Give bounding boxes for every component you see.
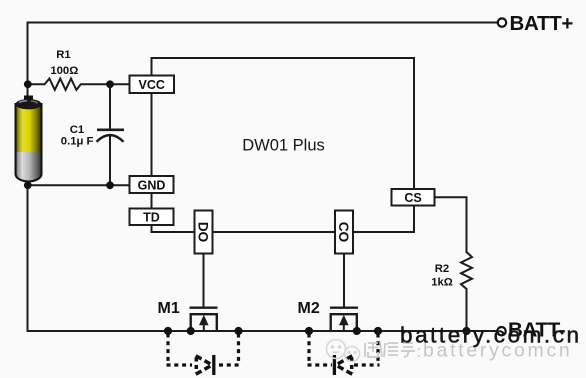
pin CS — [392, 189, 435, 206]
wire CS to R2 — [435, 197, 467, 253]
svg-text:1kΩ: 1kΩ — [431, 277, 453, 289]
wire OC gate to M2 — [343, 254, 345, 309]
pin GND — [130, 176, 174, 193]
node M1 dashed-left junction — [164, 327, 172, 335]
svg-text:DW01 Plus: DW01 Plus — [242, 137, 325, 155]
pin TD — [130, 209, 174, 226]
pin VCC — [130, 76, 175, 94]
transistor M1 — [190, 308, 218, 331]
pin OC — [335, 211, 353, 254]
battery B1 — [16, 96, 42, 182]
node C1 bottom junction — [106, 181, 114, 189]
svg-text:TD: TD — [143, 211, 160, 225]
svg-text:VCC: VCC — [138, 78, 164, 92]
node M1 source junction — [187, 327, 195, 335]
wire bottom bus (BATT- rail) — [27, 330, 498, 332]
body diode D1 of M1 — [196, 356, 212, 374]
body diode D2 of M2 — [336, 356, 352, 374]
svg-text:C1: C1 — [70, 124, 84, 136]
svg-text:DO: DO — [196, 222, 211, 242]
svg-text:R2: R2 — [435, 263, 449, 275]
resistor R2 — [461, 252, 472, 331]
body diode box of M1 (dashed) — [167, 334, 241, 366]
capacitor C1 — [109, 84, 111, 129]
node M2 drain junction — [353, 327, 361, 335]
node C1 top junction — [106, 80, 114, 88]
svg-text:battery.com.cn: battery.com.cn — [400, 323, 582, 348]
node M2 dashed-right junction — [374, 327, 382, 335]
body diode box of M2 (dashed) — [308, 334, 380, 366]
wire BATT+ top rail — [28, 22, 498, 24]
transistor M2 — [330, 308, 358, 331]
wire GND to battery negative — [28, 184, 130, 186]
node BATT- terminal — [497, 327, 505, 335]
svg-text:BATT+: BATT+ — [510, 12, 574, 35]
svg-text:M2: M2 — [298, 300, 320, 317]
svg-text:M1: M1 — [158, 300, 180, 317]
node M1 dashed-right junction — [234, 327, 242, 335]
node M2 dashed-left junction — [305, 327, 313, 335]
wire OD gate to M1 — [203, 254, 205, 309]
svg-text:CS: CS — [404, 191, 421, 205]
node BATT+ terminal — [498, 18, 506, 26]
node battery negative junction — [24, 181, 32, 189]
op-amp U1 DW01 Plus IC body — [152, 58, 415, 232]
svg-text:0.1μ F: 0.1μ F — [61, 135, 94, 147]
svg-text:R1: R1 — [56, 49, 70, 61]
resistor R1 — [28, 79, 130, 90]
watermark CJK text (hand-drawn glyph mimics) — [365, 342, 419, 357]
wire left vertical (battery to bottom bus) — [27, 22, 29, 332]
svg-text:CO: CO — [336, 222, 351, 242]
svg-text:GND: GND — [138, 178, 166, 192]
watermark logo faces — [327, 340, 360, 362]
svg-text:100Ω: 100Ω — [50, 65, 78, 77]
node R2 bottom junction — [462, 327, 470, 335]
node battery positive junction — [24, 80, 32, 88]
pin OD — [195, 211, 213, 254]
